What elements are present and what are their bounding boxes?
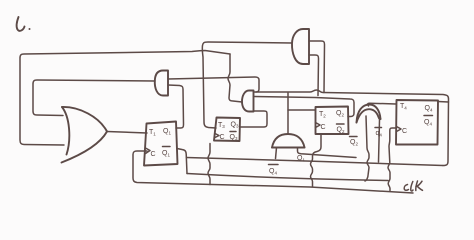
svg-text:C: C (151, 151, 156, 158)
wire: Q1bar output jog down to rails (177, 149, 187, 174)
wire: gate U2 output loop to OR gate input B (left outer loop) (20, 51, 230, 146)
label "6." problem number (17, 17, 31, 31)
wire: crescent right input riser to rail A (379, 120, 380, 162)
wire: Q4 feedback top rail y=93 with hop at x=318, corner down right side (254, 90, 449, 166)
FF2 pin labels (215, 122, 239, 142)
wire: Q1 output riser up to gate U1 input B (168, 85, 184, 128)
OR gate U6 (crescent, points up) (357, 105, 381, 123)
wire: crescent left input riser down to rail B with hops (365, 116, 369, 181)
wire: gate U2 output riser with hop over U1 input wire (228, 54, 242, 102)
FF4 pin labels (397, 103, 433, 135)
wire: Q2 rail y=97 from gate U2 to elbow down into Q2 pin (254, 97, 355, 117)
flip-flop FF4 box (396, 100, 438, 145)
wire: dome gate right leg Q1 wire (298, 148, 357, 158)
wire: gate U3 input 1 riser to Q4 rail (309, 41, 325, 93)
wire: gate U1 input A elbow down to Q4 rail (168, 77, 259, 92)
svg-text:C: C (402, 128, 407, 135)
svg-text:C: C (220, 134, 225, 141)
AND gate U3 (top, points left) (292, 29, 309, 64)
FF1 pin labels (146, 128, 172, 158)
AND gate U5 (dome, points up) (272, 134, 305, 148)
wire: Q3 output to gate U2 lower input (240, 111, 267, 127)
wire: Q4 output stub to right loop (438, 101, 449, 104)
flip-flop FF2 box (214, 118, 240, 142)
wire: gate U3 output to T3 input (jog down at x=202) (202, 42, 292, 128)
net label Q4bar on crescent right riser (375, 128, 382, 138)
wire: Q1bar rail B along the bottom to FF4 clock riser (187, 174, 388, 181)
OR gate U4 (big, left) (62, 107, 108, 163)
wire: T2 input feed (288, 109, 315, 111)
net label Q4bar on rail A (269, 165, 279, 176)
wire: Q4 bottom rail A from Q1bar jog area to right loop corner (187, 158, 444, 166)
wire: gate U1 output to OR gate input A (inner loop) (33, 80, 155, 116)
flip-flop FF1 box (144, 122, 178, 166)
wire: gate U3 input 2 riser to Q2 rail (309, 55, 319, 96)
CLK label (handwritten) (404, 181, 422, 191)
wire: FF3 clock riser with jog and hops (311, 135, 322, 187)
AND gate U1 (small, points left) (155, 71, 168, 96)
FF3 pin labels (316, 110, 345, 134)
wire: dome gate left leg to rail A (276, 148, 277, 159)
AND gate U2 (points left) (242, 91, 254, 112)
svg-text:C: C (321, 124, 326, 131)
flip-flop FF3 box (316, 107, 349, 135)
wire: clock rail from FF1 C input along the bottom (133, 151, 413, 193)
wire: FF4 C input feed and clock riser with hops (388, 128, 396, 191)
wire: OR gate output to T1 input (107, 132, 147, 134)
net label Q2bar below FF3 (350, 137, 359, 147)
wire: dome gate output riser, T2 feed branch (287, 93, 289, 134)
wire: FF2 clock riser with hops over rails (208, 144, 210, 185)
wire: crescent gate output to T4 input (368, 103, 396, 106)
